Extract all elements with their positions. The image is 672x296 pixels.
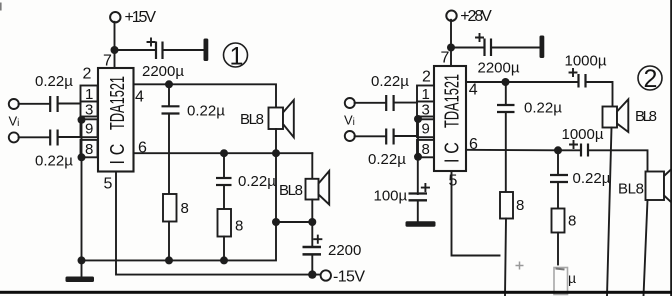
wire pin 6 circuit 2 bbox=[466, 149, 558, 152]
resistor 8 branch 1 bbox=[163, 194, 189, 260]
svg-text:8: 8 bbox=[516, 197, 524, 214]
svg-text:BL8: BL8 bbox=[635, 108, 657, 125]
svg-text:+15V: +15V bbox=[125, 9, 157, 26]
svg-text:IC: IC bbox=[441, 137, 463, 163]
svg-text:1: 1 bbox=[85, 86, 93, 103]
wire node to decoupling cap bbox=[115, 49, 155, 51]
wire +15V to pin7 bbox=[114, 22, 116, 68]
svg-text:BL8: BL8 bbox=[240, 111, 264, 128]
loudspeaker BL8 #1 (circuit 2) bbox=[603, 99, 658, 132]
wire pin 6 bbox=[134, 152, 313, 154]
svg-text:2: 2 bbox=[644, 65, 658, 93]
wire node to coupling cap bbox=[506, 81, 578, 83]
scan speck (edge artifact) bbox=[0, 3, 2, 11]
wire pin4 node to speaker 1 bbox=[169, 84, 276, 107]
capacitor 1000µ #2 bbox=[558, 126, 604, 157]
wire cap to chassis bar bbox=[164, 49, 204, 51]
node pin8 junction circuit 2 bbox=[414, 153, 422, 161]
svg-text:2: 2 bbox=[83, 66, 92, 83]
ground symbol (circuit 1) bbox=[66, 260, 95, 282]
svg-text:2200µ: 2200µ bbox=[142, 63, 184, 80]
svg-text:1: 1 bbox=[230, 43, 244, 71]
wire node to decoupling cap 2 bbox=[451, 47, 483, 49]
node rail resistor2 bbox=[220, 256, 228, 264]
right edge scan band bbox=[670, 0, 672, 296]
svg-text:8: 8 bbox=[568, 213, 576, 230]
capacitor 0.22µ branch 1 bbox=[162, 84, 226, 194]
svg-text:9: 9 bbox=[85, 121, 93, 138]
svg-text:BL8: BL8 bbox=[618, 181, 644, 198]
loudspeaker BL8 #1 (circuit 1) bbox=[240, 100, 294, 153]
svg-text:IC: IC bbox=[106, 139, 128, 165]
svg-text:-15V: -15V bbox=[333, 269, 365, 286]
wire cap to chassis bar 2 bbox=[492, 47, 540, 49]
node supply junction 2 bbox=[447, 44, 455, 52]
svg-text:0.22µ: 0.22µ bbox=[35, 153, 73, 170]
wire speaker2 return circuit 2 bbox=[644, 200, 648, 296]
svg-text:0.22µ: 0.22µ bbox=[368, 151, 406, 168]
node supply junction bbox=[111, 46, 119, 54]
pin box 1 bbox=[81, 86, 98, 104]
svg-text:5: 5 bbox=[449, 173, 458, 190]
resistor 8 branch 1 circuit 2 bbox=[500, 192, 524, 296]
wire input bottom bbox=[19, 136, 81, 138]
pin box 8 circuit 2 bbox=[417, 140, 434, 158]
node pin8 junction bbox=[78, 153, 86, 161]
svg-text:2200µ: 2200µ bbox=[478, 60, 520, 77]
circled label 2 bbox=[638, 65, 662, 93]
node rail resistor1 bbox=[165, 256, 173, 264]
pin box 3 circuit 2 bbox=[417, 102, 434, 119]
pin box 1 circuit 2 bbox=[417, 86, 434, 104]
capacitor 2200 (bottom, polarized) bbox=[303, 222, 362, 275]
svg-text:0.22µ: 0.22µ bbox=[371, 73, 409, 90]
svg-text:9: 9 bbox=[422, 121, 430, 138]
wire input bottom circuit 2 bbox=[355, 135, 417, 137]
svg-text:4: 4 bbox=[135, 89, 144, 106]
ground symbol (circuit 2) bbox=[406, 221, 436, 226]
bottom border bar bbox=[0, 291, 672, 294]
svg-text:0.22µ: 0.22µ bbox=[573, 170, 611, 187]
svg-text:5: 5 bbox=[104, 176, 113, 193]
node bottom link left bbox=[272, 218, 280, 226]
node -15V cap junction bbox=[308, 270, 316, 278]
wire speaker1 return circuit 2 bbox=[607, 128, 612, 296]
svg-text:µ: µ bbox=[568, 270, 576, 286]
svg-text:8: 8 bbox=[422, 141, 430, 158]
wire bottom link bbox=[276, 221, 312, 223]
svg-text:0.22µ: 0.22µ bbox=[187, 103, 225, 120]
node speaker1 return bbox=[272, 149, 280, 157]
svg-text:4: 4 bbox=[469, 82, 478, 99]
wire +28V to pin7 bbox=[450, 20, 452, 66]
pin box 9 circuit 2 bbox=[417, 119, 434, 137]
node pin3 junction circuit 2 bbox=[414, 115, 422, 123]
op-amp U2 TDA1521 bbox=[434, 66, 466, 171]
svg-text:7: 7 bbox=[441, 50, 450, 67]
pin box 8 bbox=[81, 140, 98, 158]
wire pin 5 to -15V rail bbox=[116, 172, 322, 275]
capacitor 2200µ (top, polarized) bbox=[142, 39, 184, 81]
svg-text:6: 6 bbox=[138, 140, 147, 157]
resistor 8 branch 2 bbox=[218, 209, 244, 260]
svg-text:0.22µ: 0.22µ bbox=[35, 73, 73, 90]
svg-text:0.22µ: 0.22µ bbox=[238, 173, 276, 190]
svg-text:TDA1521: TDA1521 bbox=[441, 74, 464, 128]
svg-text:2: 2 bbox=[422, 69, 431, 86]
capacitor 2200µ (top, circuit 2) bbox=[476, 34, 520, 77]
svg-text:1000µ: 1000µ bbox=[562, 126, 604, 143]
terminal -15V bbox=[321, 269, 366, 286]
svg-text:2200: 2200 bbox=[328, 242, 361, 259]
wire bottom rail bbox=[82, 222, 277, 260]
node rail left bbox=[78, 256, 86, 264]
op-amp U1 TDA1521 bbox=[98, 68, 134, 172]
node pin6 junction circuit 2 bbox=[554, 146, 562, 154]
svg-text:7: 7 bbox=[103, 53, 112, 70]
capacitor 0.22µ input bottom circuit 2 bbox=[368, 129, 406, 169]
svg-text:6: 6 bbox=[469, 136, 478, 153]
capacitor 0.22µ branch 1 circuit 2 bbox=[497, 82, 562, 192]
capacitor 0.22µ branch 2 circuit 2 bbox=[550, 150, 611, 208]
svg-text:+28V: +28V bbox=[460, 8, 492, 25]
ground chassis bar (top, circuit 1) bbox=[204, 39, 209, 62]
svg-text:0.22µ: 0.22µ bbox=[524, 100, 562, 117]
loudspeaker BL8 #2 (circuit 1) bbox=[279, 153, 329, 222]
wire ground drop bbox=[81, 120, 83, 261]
svg-text:8: 8 bbox=[235, 218, 243, 235]
loudspeaker BL8 #2 (circuit 2) bbox=[618, 164, 672, 209]
node pin4 output bbox=[165, 80, 173, 88]
terminal +28V bbox=[446, 8, 492, 25]
svg-text:BL8: BL8 bbox=[279, 182, 303, 199]
pin box 9 bbox=[81, 119, 98, 137]
input terminal bottom bbox=[9, 132, 19, 142]
wire cap to speaker 1 circuit 2 bbox=[587, 82, 613, 107]
pin box 3 bbox=[81, 102, 98, 119]
wire to 100µ bbox=[417, 119, 419, 155]
node pin4 output circuit 2 bbox=[502, 78, 510, 86]
svg-text:8: 8 bbox=[181, 200, 189, 217]
node pin3 junction bbox=[78, 116, 86, 124]
svg-text:1000µ: 1000µ bbox=[565, 53, 607, 70]
svg-text:3: 3 bbox=[422, 102, 430, 119]
wire pin 4 bbox=[134, 83, 170, 85]
capacitor 100µ (polarized) bbox=[374, 154, 430, 221]
wire input top circuit 2 bbox=[355, 102, 417, 104]
wire cap2 to speaker 2 circuit 2 bbox=[589, 150, 648, 171]
svg-text:8: 8 bbox=[85, 141, 93, 158]
capacitor 0.22µ input top circuit 2 bbox=[371, 73, 409, 111]
wire pin 5 circuit 2 bbox=[452, 171, 500, 256]
resistor 8 branch 2 circuit 2 bbox=[552, 209, 577, 265]
input terminal top circuit 2 bbox=[345, 98, 355, 108]
ground chassis bar (top, circuit 2) bbox=[540, 36, 545, 59]
input terminal top bbox=[9, 99, 19, 109]
svg-text:3: 3 bbox=[85, 102, 93, 119]
circled label 1 bbox=[224, 43, 248, 71]
node pin6 branch2 bbox=[220, 149, 228, 157]
terminal +15V bbox=[110, 9, 156, 26]
capacitor 0.22µ branch 2 bbox=[216, 153, 276, 209]
capacitor 1000µ #1 bbox=[565, 53, 607, 88]
input terminal bottom circuit 2 bbox=[345, 131, 355, 141]
svg-text:100µ: 100µ bbox=[374, 188, 408, 205]
wire input top bbox=[19, 103, 81, 105]
faint component (scan artifact) bbox=[516, 262, 577, 295]
wire pin 4 circuit 2 bbox=[466, 81, 506, 83]
node bottom link right bbox=[308, 218, 316, 226]
capacitor 0.22µ input top bbox=[35, 73, 73, 112]
svg-text:TDA1521: TDA1521 bbox=[106, 76, 129, 130]
svg-text:1: 1 bbox=[422, 86, 430, 103]
wire speaker1 return down bbox=[275, 153, 277, 222]
capacitor 0.22µ input bottom bbox=[35, 130, 73, 170]
